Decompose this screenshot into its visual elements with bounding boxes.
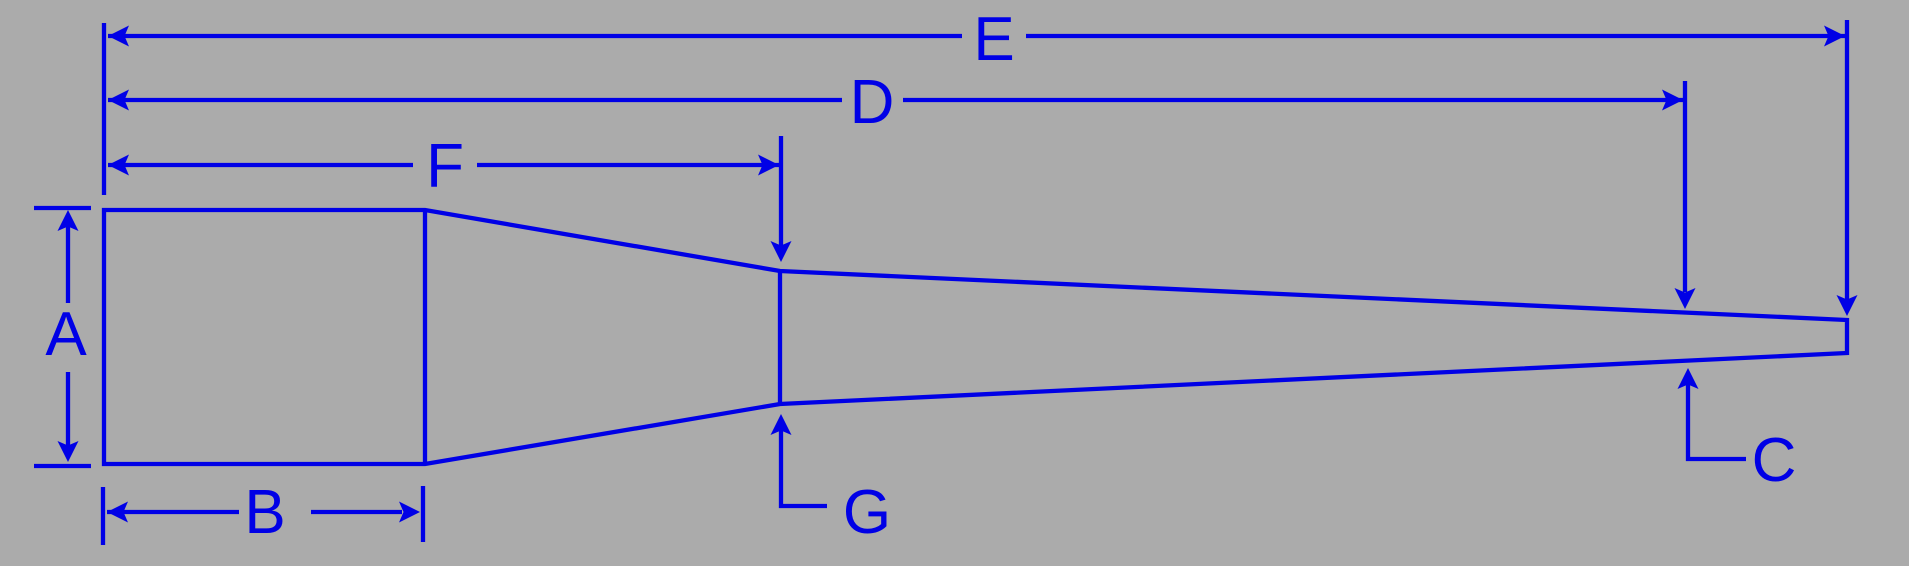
- svg-text:B: B: [244, 478, 285, 547]
- dimension E line: [108, 34, 1845, 38]
- shape rectangle right edge: [423, 210, 427, 464]
- shape junction vertical at G: [778, 271, 782, 404]
- svg-text:E: E: [973, 5, 1014, 74]
- svg-text:D: D: [850, 68, 895, 137]
- dimension F line: [108, 163, 779, 167]
- dimension E right extension line: [1845, 20, 1849, 300]
- callout C up arrowhead: [1678, 368, 1699, 389]
- dimension F down arrowhead: [771, 241, 792, 262]
- label G: [843, 478, 891, 547]
- svg-text:A: A: [45, 300, 87, 369]
- dimension B left tick: [101, 487, 105, 545]
- label C: [1752, 426, 1797, 495]
- dimension A down arrowhead: [58, 441, 79, 462]
- dimension A bottom tick: [34, 464, 91, 468]
- dimension E down arrowhead: [1837, 295, 1858, 316]
- dimension D right arrowhead: [1662, 90, 1683, 111]
- dimension F right arrowhead: [758, 155, 779, 176]
- dimension D left arrowhead: [108, 90, 129, 111]
- taper shape outline: [104, 210, 1847, 464]
- dimension F left arrowhead: [108, 155, 129, 176]
- dimension A top tick: [34, 206, 91, 210]
- dimension B right arrowhead: [399, 502, 420, 523]
- dimension A up arrowhead: [58, 210, 79, 231]
- svg-text:G: G: [843, 478, 891, 547]
- left extension line: [102, 23, 106, 195]
- callout G up arrowhead: [771, 414, 792, 435]
- dimension A upper arrow line: [66, 226, 70, 303]
- label A: [45, 300, 87, 369]
- dimension B right tick: [421, 486, 425, 542]
- dimension D down arrowhead: [1675, 288, 1696, 309]
- label E: [973, 5, 1014, 74]
- svg-text:C: C: [1752, 426, 1797, 495]
- callout G arrow line: [781, 430, 827, 506]
- dimension F extension line: [779, 136, 783, 246]
- dimension B line: [107, 510, 402, 514]
- label F: [426, 132, 464, 201]
- dimension E right arrowhead: [1824, 26, 1845, 47]
- dimension B left arrowhead: [107, 502, 128, 523]
- dimension E left arrowhead: [108, 26, 129, 47]
- label D: [850, 68, 895, 137]
- dimension A lower arrow line: [66, 372, 70, 448]
- callout C arrow line: [1688, 384, 1746, 459]
- dimension D right extension line: [1683, 81, 1687, 292]
- dimension D line: [108, 98, 1683, 102]
- svg-text:F: F: [426, 132, 464, 201]
- label B: [244, 478, 285, 547]
